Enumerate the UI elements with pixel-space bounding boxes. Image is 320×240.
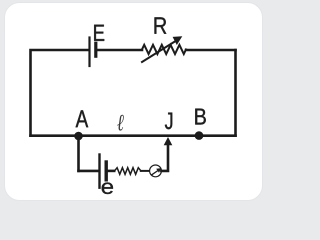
node B dot (195, 131, 204, 140)
galvanometer needle arrowhead (156, 168, 161, 173)
wire AB (potentiometer wire) (31, 134, 236, 137)
wire right vertical (234, 50, 237, 136)
galvanometer needle (152, 171, 158, 175)
wire battery e to resistor (108, 170, 114, 173)
label l (length) (117, 115, 124, 131)
label J (165, 113, 172, 130)
resistor zigzag (bottom) (115, 168, 142, 175)
jockey arrowhead at J (164, 137, 173, 145)
battery E short plate (94, 43, 97, 56)
label E (94, 25, 104, 41)
wire rheostat to corner (186, 49, 236, 52)
wire A down (77, 136, 80, 171)
battery E long plate (88, 38, 90, 67)
white card (5, 3, 263, 201)
galvanometer G body (150, 165, 162, 177)
wire battery to rheostat (98, 49, 143, 52)
rheostat R zigzag (142, 45, 186, 54)
node A dot (74, 132, 83, 141)
wire top-left segment (31, 50, 89, 136)
wire galvanometer to jockey vertical (161, 145, 168, 171)
wire resistor to galvanometer (141, 170, 150, 172)
rheostat arrow shaft (142, 40, 178, 63)
label B (195, 109, 205, 125)
battery e long plate (98, 155, 100, 188)
label A (76, 110, 89, 127)
battery e short plate (104, 162, 107, 180)
label R (155, 17, 167, 33)
wire bottom to battery e (79, 170, 99, 173)
rheostat arrowhead (173, 36, 183, 45)
label e (102, 182, 113, 194)
